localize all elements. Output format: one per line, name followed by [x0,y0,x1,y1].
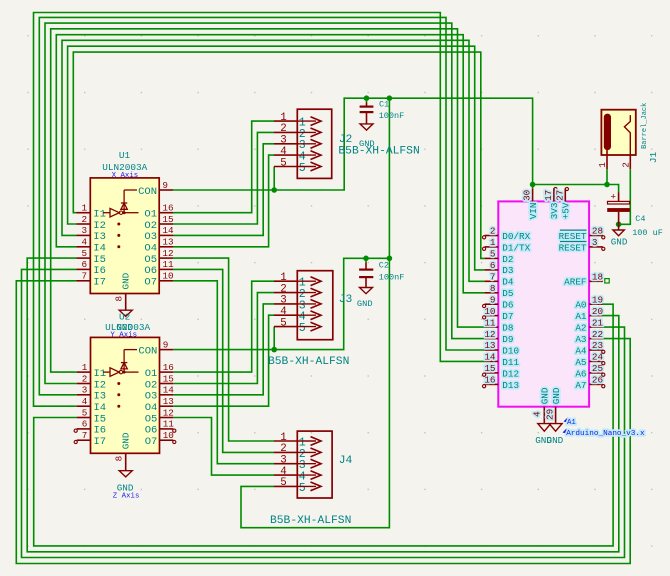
svg-text:D7: D7 [502,311,513,322]
J1 pin 1 [597,150,608,169]
svg-text:D2: D2 [502,254,513,265]
A1 pin 23 (A4) [575,340,603,356]
svg-text:1: 1 [280,432,286,444]
wire U2.I4-D11 [34,13,485,407]
A1 pin 5 (D2) [485,249,514,265]
svg-text:B5B-XH-ALFSN: B5B-XH-ALFSN [268,356,349,368]
svg-text:X Axis: X Axis [112,172,139,180]
svg-text:VIN: VIN [528,203,539,220]
svg-text:8: 8 [114,296,125,302]
svg-text:4: 4 [280,146,286,158]
junction VIN drop [387,95,393,101]
junction VIN pin [530,182,536,188]
svg-text:14: 14 [163,385,175,396]
capacitor C2 100nF [359,263,373,288]
svg-text:D12: D12 [502,368,519,379]
svg-text:11: 11 [484,317,496,328]
svg-text:2: 2 [280,443,286,455]
svg-text:J1: J1 [648,152,659,164]
svg-text:4: 4 [82,237,88,248]
svg-text:O6: O6 [145,425,158,437]
svg-text:O3: O3 [145,391,158,403]
U2 unconnected pins 6,7 markers [74,429,176,444]
svg-text:29: 29 [545,409,556,420]
U2 pin 8 (GND) [114,432,132,470]
U1 pin 15 (O2) [144,214,173,232]
wire U2.O4-J3.4 [173,315,274,406]
wire VIN pin stub to junction [532,185,534,189]
svg-text:21: 21 [592,317,604,328]
svg-text:3: 3 [592,237,598,248]
svg-text:D3: D3 [502,265,513,276]
svg-text:8: 8 [490,283,496,294]
U1 pin 12 (O5) [144,248,173,266]
svg-text:10: 10 [163,430,174,441]
svg-text:D11: D11 [502,357,519,368]
capacitor C1 100nF [360,103,374,124]
wire U1.O6-J4.2 [173,269,274,452]
svg-text:Arduino_Nano_v3.x: Arduino_Nano_v3.x [566,430,645,438]
svg-text:2: 2 [280,283,286,295]
svg-text:13: 13 [484,340,495,351]
svg-text:GND: GND [357,299,373,309]
svg-text:A5: A5 [575,357,586,368]
svg-text:5: 5 [299,162,306,175]
ground symbol at A1 pin 29 [547,424,564,446]
U2 pin 3 (I3) [77,385,106,403]
svg-text:GND: GND [121,272,132,289]
svg-text:2: 2 [280,123,286,135]
svg-text:I4: I4 [94,402,107,414]
svg-text:9: 9 [490,294,496,305]
svg-text:15: 15 [163,373,174,384]
A1 pin 8 (D5) [485,283,514,299]
svg-text:A6: A6 [575,368,586,379]
svg-text:GND: GND [540,387,551,404]
U1 pin 16 (O1) [144,203,173,221]
U1 pin 3 (I3) [77,225,106,243]
U1 pin 14 (O3) [144,225,174,243]
svg-text:O6: O6 [144,265,157,277]
svg-text:I7: I7 [94,436,107,448]
svg-text:16: 16 [484,375,495,386]
svg-text:20: 20 [592,306,603,317]
wire barrel pin1 to VIN junction [606,169,608,184]
U1 pin 11 (O6) [144,259,174,277]
svg-text:O4: O4 [145,402,158,414]
svg-text:O5: O5 [145,413,158,425]
svg-text:12: 12 [163,407,174,418]
svg-text:13: 13 [162,237,173,248]
A1 pin 2 (D0/RX) [485,226,531,242]
U2 internal driver symbol [103,350,139,408]
U2 pin 11 (O6) [145,419,175,437]
svg-text:B5B-XH-ALFSN: B5B-XH-ALFSN [270,515,351,527]
U1 pin 9 (CON) [138,180,173,198]
svg-text:5: 5 [280,477,286,489]
svg-text:I6: I6 [94,425,107,437]
wire U1.O5-J4.1 [173,258,274,441]
svg-text:RESET: RESET [559,242,587,253]
A1 pin 26 (A7) [575,375,603,391]
A1 pin 28 (RESET) [559,226,603,242]
svg-text:GND: GND [359,139,375,149]
J2 pin 5 [274,157,321,175]
svg-text:GND: GND [611,236,628,247]
wire U1.I7-A3 [16,281,630,564]
A1 pin 6 (D3) [485,260,514,276]
svg-text:D6: D6 [502,300,513,311]
svg-text:GND: GND [547,435,564,446]
A1 pin 10 (D7) [484,306,513,322]
svg-text:A1: A1 [567,419,576,427]
svg-text:19: 19 [592,294,603,305]
svg-text:O3: O3 [144,231,157,243]
svg-text:15: 15 [484,363,495,374]
U2 pin 12 (O5) [145,407,174,425]
svg-text:I1: I1 [93,209,106,221]
J1 switch contact graphic [624,115,630,155]
svg-text:D4: D4 [502,277,514,288]
svg-text:D10: D10 [502,345,519,356]
svg-text:4: 4 [280,306,286,318]
wire U1.I5-A1 [27,258,619,552]
IC U2 ULN2003A body [91,337,160,453]
U2 pin 5 (I5) [77,407,106,425]
svg-text:U1: U1 [119,150,131,161]
svg-text:B5B-XH-ALFSN: B5B-XH-ALFSN [338,146,419,158]
svg-text:I3: I3 [94,391,107,403]
wire U1.I1-D2 [73,52,484,258]
svg-text:A1: A1 [575,311,587,322]
svg-text:3: 3 [280,295,286,307]
svg-text:AREF: AREF [564,277,586,288]
svg-text:6: 6 [82,419,88,430]
svg-text:14: 14 [162,225,174,236]
svg-text:7: 7 [82,430,88,441]
svg-text:O5: O5 [144,254,157,266]
svg-text:O1: O1 [145,368,158,380]
wire U2.O1-J3.1 [173,281,274,372]
U1 pin 7 (I7) [77,271,106,289]
U1 pin 1 (I1) [77,203,106,221]
svg-text:1: 1 [82,362,88,373]
svg-text:30: 30 [522,190,533,201]
J1 barrel pin graphic [604,114,611,151]
svg-text:GND: GND [121,432,132,449]
svg-text:I7: I7 [93,277,106,289]
svg-text:J4: J4 [339,455,353,467]
wire U1.O1-J2.1 [173,121,274,213]
J4 pin 1 [274,432,321,450]
svg-text:D8: D8 [502,323,513,334]
svg-text:5: 5 [280,157,286,169]
svg-text:4: 4 [280,466,286,478]
wire U1.O4-J2.4 [173,155,274,247]
wire U1.O7-J4.3 [173,281,274,464]
A1 value Arduino_Nano_v3.x [563,429,646,439]
U2 pin 13 (O4) [145,396,174,414]
svg-text:3: 3 [280,455,286,467]
J3 pin 1 [274,272,321,290]
A1 pin 22 (A3) [575,329,603,345]
ground symbol at A1 pin 4 [535,424,552,446]
wire VIN drop to J4.5 [241,98,389,528]
U1 internal driver symbol [103,190,139,248]
svg-text:6: 6 [490,260,496,271]
J3 pin 3 [274,295,321,313]
A1 pin 4 (GND) [532,387,551,423]
A1 pin 29 (GND) [545,387,562,423]
A1 pin 17 (3V3) [543,187,560,219]
svg-text:A7: A7 [575,380,586,391]
A1 pin 15 (D12) [484,363,519,379]
C4 ground symbol [611,224,628,247]
wire U1.I4-D5 [56,35,484,293]
A1 pin 7 (D4) [485,272,514,288]
svg-text:16: 16 [162,203,173,214]
svg-text:1: 1 [280,272,286,284]
svg-text:A2: A2 [575,323,586,334]
J2 pin 2 [274,123,321,141]
J3 pin 5 [274,317,321,335]
U2 pin 7 (I7) [77,430,106,448]
U2 pin 6 (I6) [77,419,106,437]
svg-text:4: 4 [532,411,543,417]
wire U2.CON to C2 rail [173,258,389,349]
wire C2 top stub [365,258,367,262]
junction C4-/GND [616,222,622,228]
A1 reference label [564,418,577,428]
J3 pin 2 [274,283,321,301]
svg-text:I4: I4 [93,243,106,255]
A1 pin 16 (D13) [484,375,519,391]
svg-text:O4: O4 [144,243,157,255]
svg-text:11: 11 [163,419,175,430]
U2 ground symbol [117,471,134,494]
U2 pin 15 (O2) [145,373,174,391]
J2 pin 3 [274,135,321,153]
wire J2.5 drop to CON rail [273,167,275,191]
U2 pin 10 (O7) [145,430,174,448]
U1 pin 6 (I6) [77,259,106,277]
svg-text:4: 4 [82,396,88,407]
svg-text:+: + [610,191,616,202]
svg-text:A3: A3 [575,334,586,345]
IC U1 ULN2003A body [90,178,159,294]
U2 pin 9 (CON) [138,339,173,357]
svg-text:D1/TX: D1/TX [502,242,530,253]
wire U2.I1-D8 [51,29,485,372]
U2 pin 16 (O1) [145,362,174,380]
J4 pin 4 [274,466,321,484]
svg-text:3: 3 [280,135,286,147]
svg-text:27: 27 [554,190,565,201]
A1 pin 11 (D8) [484,317,513,333]
svg-text:O7: O7 [144,277,157,289]
svg-text:CON: CON [138,186,157,198]
svg-text:1: 1 [82,203,88,214]
svg-text:2: 2 [82,214,88,225]
U1 pin 5 (I5) [77,248,106,266]
svg-text:2: 2 [490,226,496,237]
svg-text:I2: I2 [94,379,107,391]
svg-text:12: 12 [162,248,173,259]
svg-text:CON: CON [138,345,157,357]
svg-text:I2: I2 [93,220,106,232]
svg-text:9: 9 [162,180,168,191]
svg-text:I1: I1 [94,368,107,380]
J4 pin 5 [274,477,321,495]
svg-text:D13: D13 [502,380,519,391]
svg-text:O1: O1 [144,209,157,221]
U1 pin 2 (I2) [77,214,106,232]
A1 unconnected left pin markers [483,236,486,388]
svg-text:O7: O7 [145,436,158,448]
A1 pin 14 (D11) [484,352,519,368]
svg-text:17: 17 [543,190,554,201]
J2 pin 4 [274,146,321,164]
U1 ground symbol [116,310,133,333]
svg-text:C2: C2 [379,261,389,271]
svg-text:C1: C1 [379,100,389,110]
wire U2.O3-J3.3 [173,304,274,395]
svg-text:5: 5 [280,317,286,329]
J2 pin 1 [274,112,321,130]
A1 pin 27 (+5V) [554,187,571,219]
svg-text:12: 12 [484,329,495,340]
connector J1 Barrel_Jack body [601,110,635,155]
A1 pin 18 (AREF) [564,272,603,288]
svg-text:Z Axis: Z Axis [113,493,140,501]
U1 pin 10 (O7) [144,271,173,289]
capacitor C4 100uF polarized [608,191,630,224]
svg-text:26: 26 [592,375,603,386]
svg-text:Y Axis: Y Axis [110,332,137,340]
C1 ground symbol [359,124,375,149]
svg-text:+5V: +5V [561,202,572,219]
U2 pin 4 (I4) [77,396,106,414]
wire U2.I3-D10 [39,17,484,394]
A1 pin 24 (A5) [575,352,603,368]
A1 pin 13 (D10) [484,340,519,356]
wire U2.O2-J3.2 [173,293,274,384]
svg-text:3V3: 3V3 [549,203,560,220]
wire C1 top stub [366,98,368,102]
svg-text:2: 2 [620,162,631,168]
svg-text:O2: O2 [145,379,158,391]
A1 pin 19 (A0) [575,294,603,310]
junction J2.5/CON [271,187,277,193]
svg-text:100 uF: 100 uF [632,228,663,238]
svg-text:22: 22 [592,329,603,340]
svg-text:10: 10 [162,271,173,282]
J4 pin 3 [274,455,321,473]
junction C1/VIN rail [364,95,370,101]
wire U2.I5-A0 [34,304,613,546]
svg-text:A4: A4 [575,345,587,356]
J4 pin 2 [274,443,321,461]
junction C2 rail/VIN drop [387,255,393,261]
svg-text:10: 10 [484,306,495,317]
svg-text:C4: C4 [635,214,645,224]
svg-text:U2: U2 [119,311,130,322]
U2 pin 1 (I1) [77,362,106,380]
U1 pin 13 (O4) [144,237,173,255]
A1 pin 1 (D1/TX) [485,237,531,253]
svg-text:9: 9 [163,339,169,350]
J3 pin 4 [274,306,321,324]
svg-text:I5: I5 [93,254,106,266]
A1 unconnected right pin markers [602,236,605,388]
U1 pin 8 (GND) [114,272,132,310]
wire barrel pin2 to C4 minus [619,169,631,224]
wire U1.I6-A2 [22,269,625,557]
svg-text:11: 11 [162,259,174,270]
A1 pin 20 (A1) [575,306,603,322]
svg-text:I6: I6 [93,265,106,277]
A1 pin 21 (A2) [575,317,603,333]
svg-text:6: 6 [82,259,88,270]
svg-text:16: 16 [163,362,174,373]
svg-text:18: 18 [592,272,603,283]
svg-text:I3: I3 [93,231,106,243]
svg-text:5: 5 [299,482,306,495]
wire U2.O5-J4.4 [173,418,274,476]
U2 pin 2 (I2) [77,373,106,391]
junction C2/rail [363,255,369,261]
U1 pin 4 (I4) [77,237,106,255]
svg-text:D9: D9 [502,334,513,345]
wire U1.I3-D4 [62,40,485,281]
svg-text:100nF: 100nF [379,273,405,283]
svg-text:1: 1 [597,162,608,168]
svg-text:1: 1 [490,237,496,248]
svg-text:D5: D5 [502,288,513,299]
svg-text:5: 5 [82,248,88,259]
wire J3.5 drop to U2 CON rail [273,327,275,350]
svg-text:8: 8 [114,456,125,462]
wire U1.CON to VIN rail [173,98,619,192]
U2 pin 14 (O3) [145,385,175,403]
junction J3.5/U2 CON [271,347,277,353]
svg-text:5: 5 [82,407,88,418]
svg-text:O2: O2 [144,220,157,232]
A1 pin 9 (D6) [485,294,514,310]
junction barrel pin1/C4+ [604,182,610,188]
J1 pin 2 [620,155,631,169]
svg-text:14: 14 [484,352,496,363]
svg-text:Barrel_Jack: Barrel_Jack [641,103,649,149]
wire U1.O2-J2.2 [173,132,274,224]
A1 pin 12 (D9) [484,329,513,345]
wire U1.O3-J2.3 [173,144,274,236]
svg-text:15: 15 [162,214,173,225]
svg-text:5: 5 [490,249,496,260]
svg-text:2: 2 [82,373,88,384]
svg-text:J3: J3 [339,294,353,306]
svg-text:7: 7 [82,271,88,282]
svg-text:13: 13 [163,396,174,407]
A1 pin 3 (RESET) [559,237,603,253]
wire U1.I2-D3 [68,46,485,270]
svg-text:5: 5 [299,322,306,335]
svg-text:3: 3 [82,385,88,396]
connector J4 B5B-XH-ALFSN body [297,431,332,498]
svg-text:3: 3 [82,225,88,236]
svg-text:25: 25 [592,363,603,374]
connector J3 B5B-XH-ALFSN body [297,271,333,340]
